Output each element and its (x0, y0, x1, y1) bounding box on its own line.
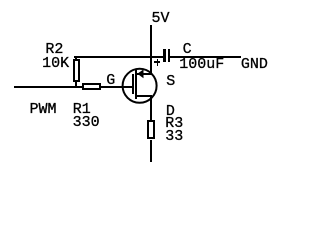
drain lead internal horizontal (137, 95, 152, 97)
source lead internal horizontal (137, 73, 152, 75)
wire drain lead down to R3 (150, 95, 152, 120)
wire R2 bottom lead to gate line (75, 82, 77, 86)
wire R2 top lead (75, 58, 77, 60)
polarity + of capacitor (154, 61, 160, 63)
wire below R3 (150, 140, 152, 162)
wire top rail from R2 to capacitor left plate (74, 56, 164, 58)
label R3 (165, 119, 183, 129)
resistor R3 body (147, 120, 155, 139)
label PWM (30, 105, 57, 115)
label R1 (73, 105, 91, 115)
label 100uF (179, 60, 224, 70)
label S (166, 77, 175, 87)
label G (106, 76, 115, 86)
wire 5V rail / source lead (vertical) (150, 25, 152, 75)
label 33 (165, 132, 183, 142)
capacitor C left plate (163, 49, 166, 63)
label C (183, 45, 192, 55)
resistor R2 body (73, 59, 80, 82)
gate plate bar (132, 74, 134, 94)
label 330 (73, 118, 100, 128)
transistor Q1 MOSFET body circle (0, 0, 282, 178)
resistor R1 body (82, 83, 102, 91)
label D (166, 107, 175, 117)
capacitor C right plate (168, 49, 171, 63)
arrow on source lead (137, 69, 143, 78)
label GND (241, 60, 268, 70)
wire PWM input to gate (14, 86, 133, 88)
node 5V label (152, 14, 170, 24)
label R2 (45, 45, 63, 55)
wire capacitor right plate to GND end (170, 56, 241, 58)
channel bar (135, 70, 137, 99)
label 10K (42, 59, 69, 69)
